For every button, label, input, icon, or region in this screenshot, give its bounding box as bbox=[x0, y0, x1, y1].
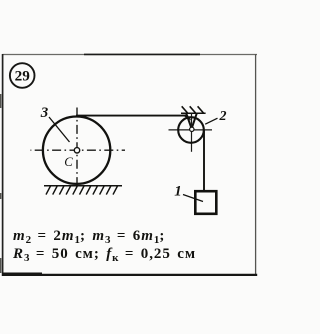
svg-text:29: 29 bbox=[15, 68, 31, 85]
svg-text:1: 1 bbox=[174, 184, 182, 200]
svg-text:C: C bbox=[64, 155, 73, 169]
svg-text:2: 2 bbox=[219, 109, 227, 124]
svg-text:3: 3 bbox=[40, 105, 49, 121]
